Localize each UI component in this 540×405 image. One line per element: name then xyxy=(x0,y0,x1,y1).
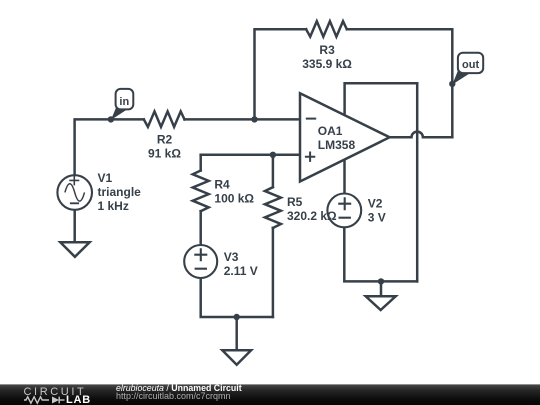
svg-text:335.9 kΩ: 335.9 kΩ xyxy=(302,57,352,71)
svg-text:triangle: triangle xyxy=(98,185,142,199)
svg-text:in: in xyxy=(119,96,129,108)
svg-text:LM358: LM358 xyxy=(318,138,356,152)
svg-text:R3: R3 xyxy=(319,43,335,57)
svg-text:V3: V3 xyxy=(224,250,239,264)
svg-text:100 kΩ: 100 kΩ xyxy=(214,191,254,205)
svg-text:R4: R4 xyxy=(214,177,230,191)
svg-text:http://circuitlab.com/c7crqmn: http://circuitlab.com/c7crqmn xyxy=(116,391,231,401)
svg-text:out: out xyxy=(462,59,479,71)
svg-text:2.11 V: 2.11 V xyxy=(224,264,258,278)
svg-text:1 kHz: 1 kHz xyxy=(98,199,129,213)
svg-text:320.2 kΩ: 320.2 kΩ xyxy=(287,209,337,223)
svg-text:LAB: LAB xyxy=(66,394,91,405)
svg-text:R2: R2 xyxy=(157,133,173,147)
svg-text:OA1: OA1 xyxy=(318,124,343,138)
svg-text:R5: R5 xyxy=(287,195,303,209)
svg-text:91 kΩ: 91 kΩ xyxy=(148,147,181,161)
svg-text:V2: V2 xyxy=(368,196,383,210)
svg-text:3 V: 3 V xyxy=(368,210,386,224)
svg-text:V1: V1 xyxy=(98,171,113,185)
